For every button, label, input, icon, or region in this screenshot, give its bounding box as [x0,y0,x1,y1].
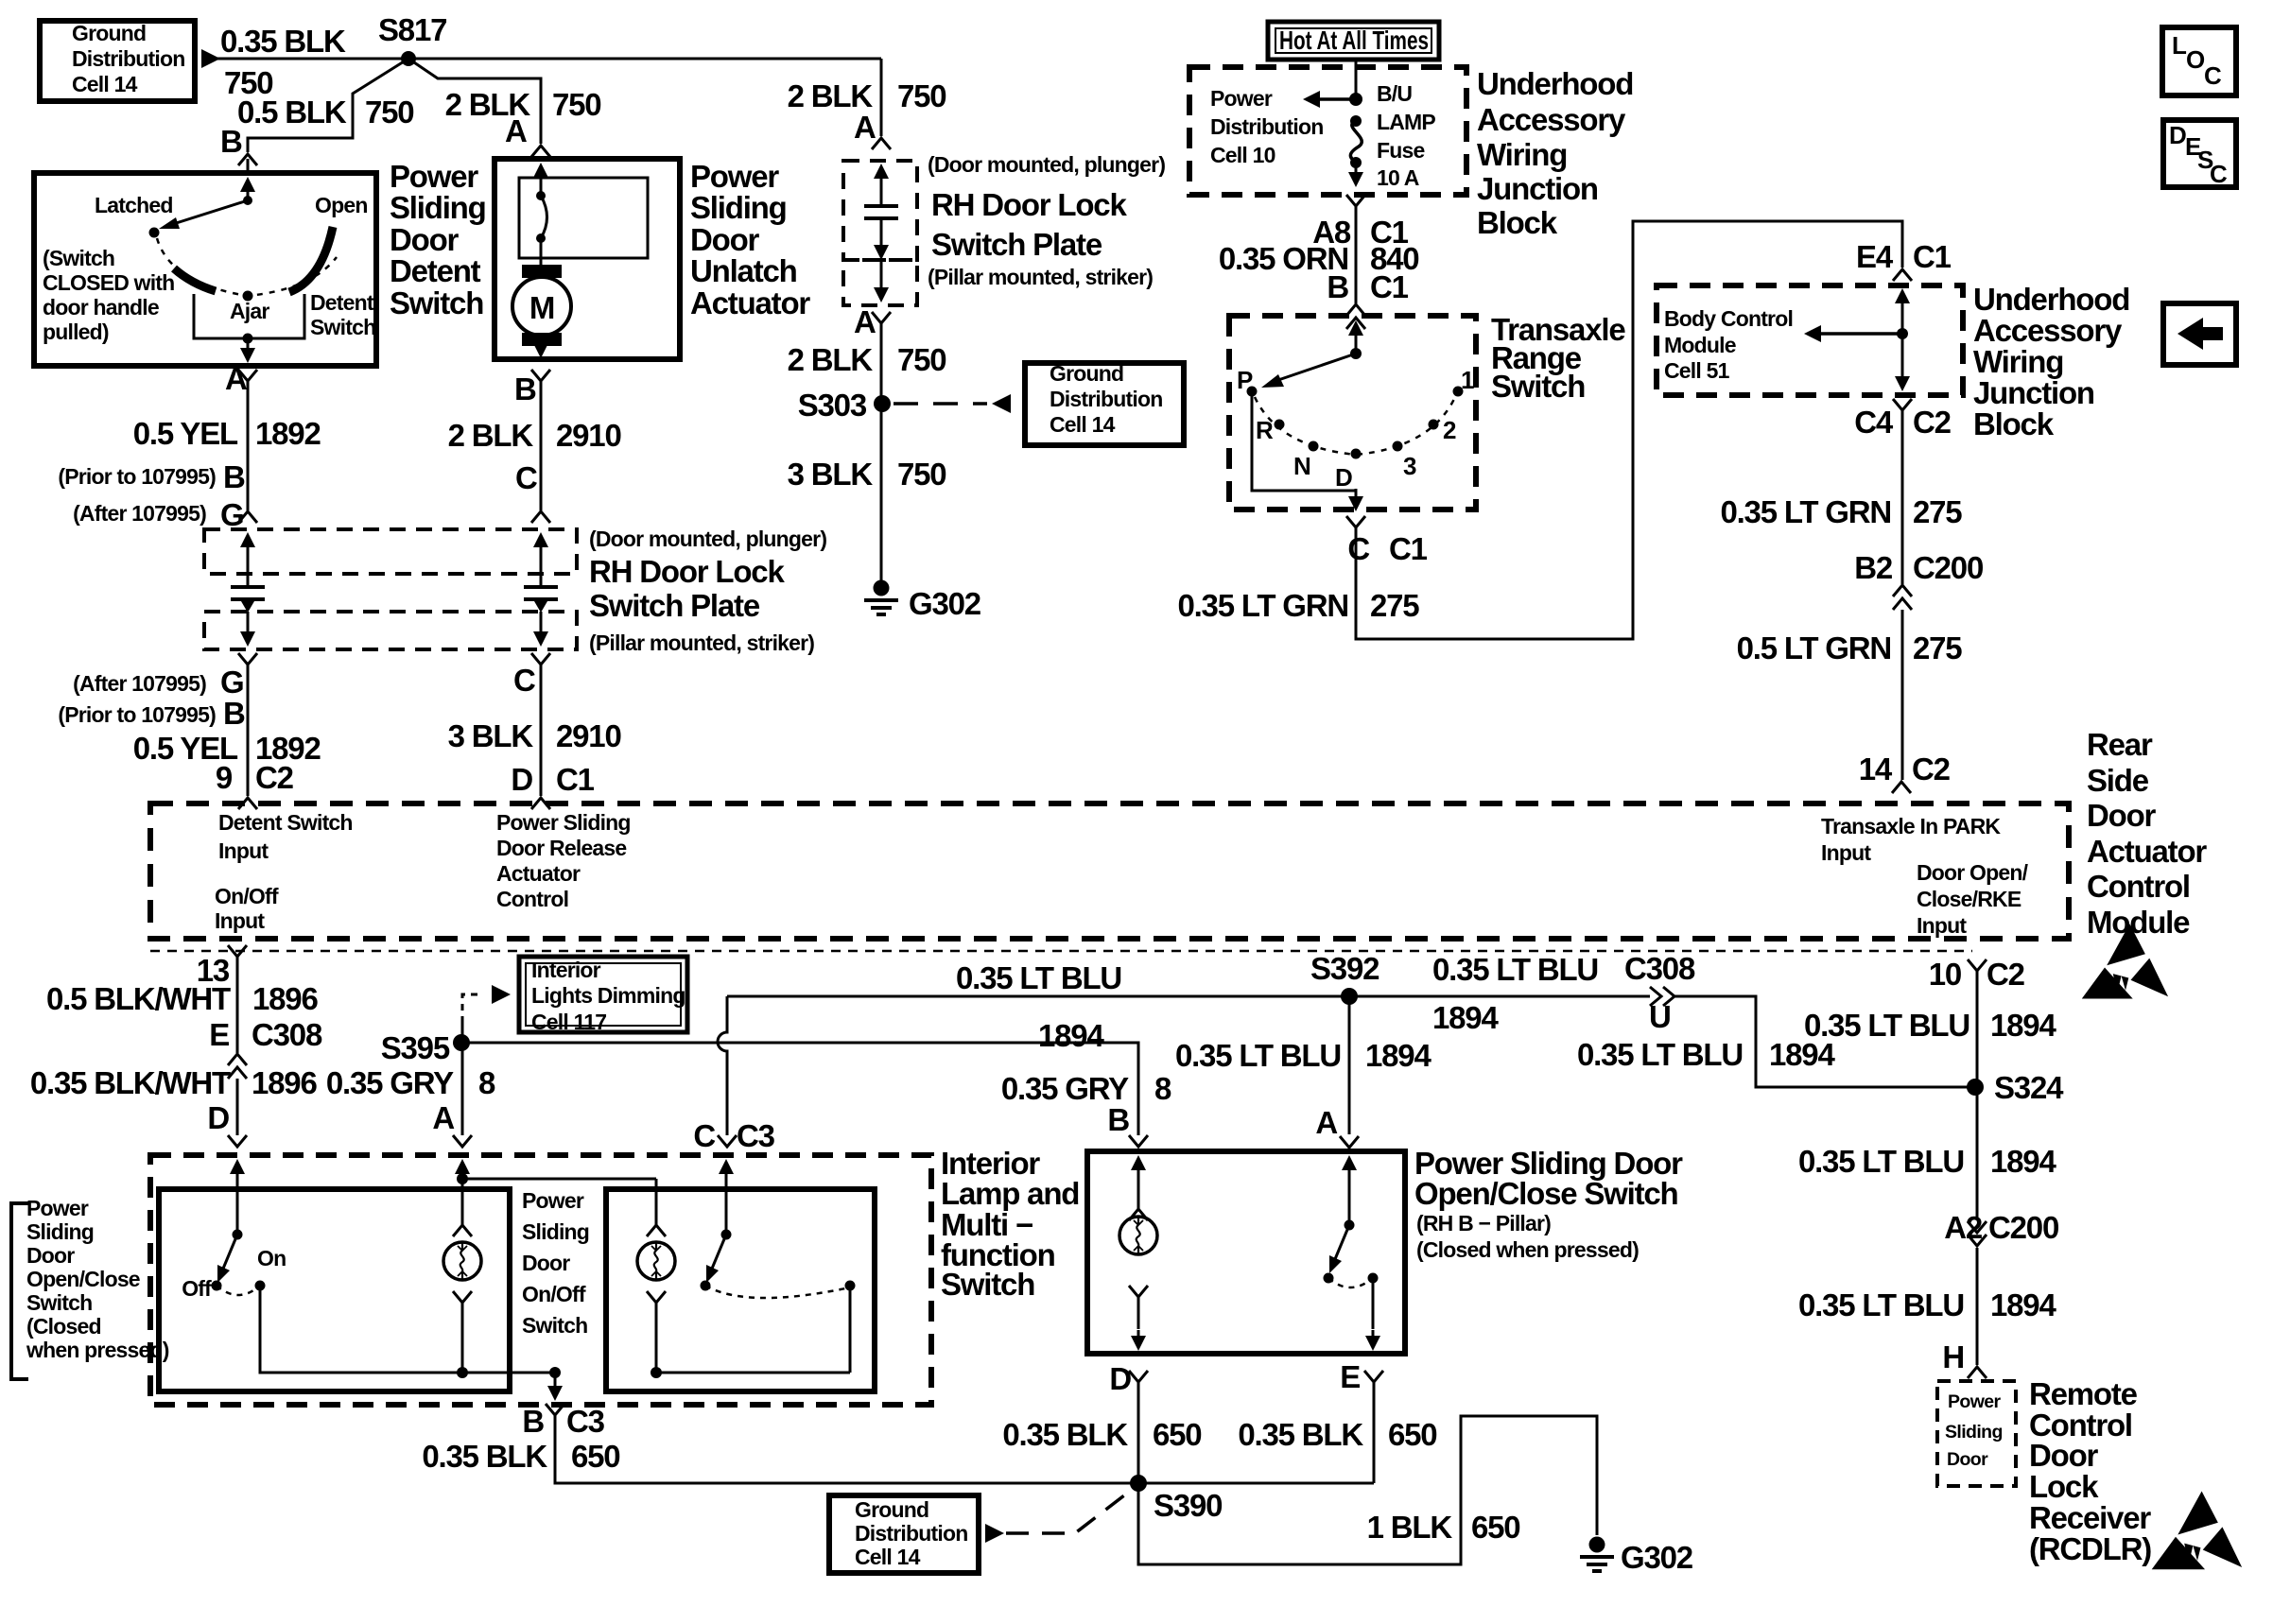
svg-text:Cell 10: Cell 10 [1210,143,1275,167]
svg-text:C4: C4 [1854,405,1894,440]
svg-text:Detent: Detent [390,253,481,288]
dashed arc RH switch [1328,1278,1373,1287]
svg-text:0.35 BLK: 0.35 BLK [220,24,346,59]
wire pin 10 down to S324 [1976,971,1979,1087]
svg-text:Close/RKE: Close/RKE [1917,887,2021,911]
svg-text:0.35 LT BLU: 0.35 LT BLU [1432,952,1598,987]
svg-text:(Prior to 107995): (Prior to 107995) [58,702,216,727]
svg-text:D: D [207,1100,229,1135]
svg-text:Detent: Detent [310,290,374,315]
svg-text:10: 10 [1929,957,1961,992]
svg-text:B: B [1107,1102,1129,1137]
svg-text:8: 8 [1154,1071,1171,1106]
svg-text:Switch: Switch [522,1313,587,1338]
power sliding door dashed box (RCDLR) [1937,1381,2016,1486]
transaxle switch arm [1278,354,1356,380]
wire motor to box bottom [533,343,548,358]
svg-text:D: D [511,762,532,797]
svg-text:2910: 2910 [556,418,621,453]
svg-text:E: E [1340,1359,1360,1394]
dashed arc of transaxle positions [1255,397,1455,455]
rear side door actuator control module dashed box [150,803,2069,939]
wire 0.5 LT GRN 275 [1901,610,1904,780]
svg-text:Door: Door [690,222,760,257]
wire 0.5 YEL 1892 (detent to connector) [247,381,250,510]
svg-text:Lights Dimming: Lights Dimming [531,983,685,1008]
svg-text:A: A [225,361,247,396]
junction S395 [453,1034,470,1051]
terminal G into switch plate [238,511,257,523]
wire 0.35 LT BLU 1894 main horizontal [727,995,1650,998]
ESD sensitive symbol (module) [2082,924,2168,998]
junction S392 [1341,988,1358,1005]
interior lamp and multifunction switch dashed box [150,1155,931,1405]
svg-text:0.5 BLK/WHT: 0.5 BLK/WHT [46,981,231,1016]
feed junction dot [1349,93,1362,106]
svg-text:275: 275 [1913,494,1962,529]
svg-text:Lock: Lock [2029,1469,2099,1504]
power sliding door open/close switch box (RH B-pillar) [1087,1151,1405,1354]
svg-text:0.35 GRY: 0.35 GRY [326,1065,454,1100]
svg-text:Block: Block [1973,406,2055,441]
svg-text:Switch: Switch [941,1267,1034,1302]
svg-text:Ground: Ground [72,21,146,45]
svg-text:Sliding: Sliding [1945,1422,2003,1443]
detent switch pivot [243,196,252,205]
wire from On contact to bus [260,1286,555,1373]
svg-text:Sliding: Sliding [390,190,486,225]
svg-text:Input: Input [1917,913,1967,938]
wire 0.35 LT GRN 275 (to C200) [1901,410,1904,584]
terminal pin 13 below module [228,945,247,957]
svg-text:Rear: Rear [2087,727,2153,762]
wire 0.5 BLK/WHT 1896 [236,957,239,1053]
svg-text:Control: Control [2087,869,2190,904]
svg-text:Input: Input [1821,840,1871,865]
hot at all times tag box [1268,22,1439,60]
off contact dot [212,1281,222,1291]
lamp feed pin B arrow [1131,1155,1146,1170]
svg-text:Distribution: Distribution [855,1521,967,1546]
latched contact dot [149,228,160,238]
svg-text:1 BLK: 1 BLK [1367,1510,1453,1545]
svg-text:Switch: Switch [1491,369,1585,404]
dashed arc multifunction switch [705,1286,850,1298]
svg-text:B: B [1327,269,1348,304]
RH door lock switch plate dashed box upper right [843,161,917,260]
svg-text:pulled): pulled) [43,320,109,344]
svg-text:(Closed: (Closed [26,1314,101,1339]
svg-text:Door Open/: Door Open/ [1917,860,2029,885]
svg-text:D: D [1109,1361,1131,1396]
svg-text:Unlatch: Unlatch [690,253,797,288]
svg-text:Power: Power [522,1188,584,1213]
svg-text:Open/Close Switch: Open/Close Switch [1414,1176,1678,1211]
svg-text:0.35 BLK: 0.35 BLK [1002,1417,1128,1452]
svg-text:(Prior to 107995): (Prior to 107995) [58,464,216,489]
svg-text:B2: B2 [1854,550,1893,585]
svg-text:Ajar: Ajar [230,299,269,323]
wire into fuse block [1355,60,1358,99]
svg-text:10 A: 10 A [1377,165,1419,190]
actuator switch contact dots and curve [536,191,546,200]
svg-text:0.35 BLK: 0.35 BLK [422,1439,547,1474]
svg-text:Power: Power [26,1196,89,1220]
svg-text:Door Release: Door Release [496,836,626,860]
svg-text:Interior: Interior [531,958,601,982]
svg-text:3 BLK: 3 BLK [448,718,534,753]
svg-text:Switch: Switch [26,1290,92,1315]
svg-text:0.35 LT BLU: 0.35 LT BLU [956,960,1121,995]
arrow from ground distribution to S390 [985,1524,1004,1543]
svg-text:Sliding: Sliding [522,1219,589,1244]
dashed tap to interior lights dimming [461,1021,464,1043]
svg-text:Underhood: Underhood [1973,282,2129,317]
svg-text:Open/Close: Open/Close [26,1267,140,1291]
svg-text:Distribution: Distribution [1050,387,1162,411]
wire 0.35 BLK 650 to S390 bus [555,1415,1374,1483]
svg-text:Open: Open [315,193,368,217]
svg-text:C2: C2 [1913,405,1952,440]
wire from S817 to unlatch actuator terminal A [408,59,541,144]
svg-text:C1: C1 [1913,239,1952,274]
svg-text:A2: A2 [1944,1210,1983,1245]
svg-text:Wiring: Wiring [1477,137,1567,172]
svg-text:3: 3 [1403,452,1416,480]
svg-text:A: A [432,1100,454,1135]
svg-text:0.35 LT GRN: 0.35 LT GRN [1177,588,1348,623]
dashed reference line to S390 [1006,1489,1133,1533]
svg-text:when pressed): when pressed) [26,1338,169,1362]
detent switch terminal stub top [247,159,250,173]
svg-text:275: 275 [1370,588,1419,623]
svg-text:C308: C308 [252,1017,322,1052]
svg-text:D: D [1335,463,1352,492]
svg-text:Distribution: Distribution [1210,114,1323,139]
svg-text:650: 650 [1153,1417,1201,1452]
svg-text:Cell 14: Cell 14 [72,72,138,96]
terminal pin 14 into module [1892,782,1911,793]
B/U LAMP fuse symbol [1350,115,1362,127]
svg-text:2 BLK: 2 BLK [788,78,874,113]
svg-text:C: C [513,663,535,698]
lamp chevron top [1129,1209,1148,1220]
svg-text:(Pillar mounted, striker): (Pillar mounted, striker) [589,631,814,655]
bus in multifunction switch [656,1372,850,1374]
switch plate left wire arrows and plates [240,532,255,547]
interior lamp (second) [637,1242,675,1280]
svg-text:G302: G302 [909,586,981,621]
wire LT BLU to S324 [1674,996,1975,1087]
svg-text:0.35 LT GRN: 0.35 LT GRN [1720,494,1891,529]
svg-text:1894: 1894 [1365,1038,1431,1073]
svg-text:3 BLK: 3 BLK [788,457,874,492]
wire S395 to open/close switch pin B [462,1043,1138,1135]
svg-text:S303: S303 [798,388,867,423]
ground G302 (upper) [874,580,890,596]
svg-text:Fuse: Fuse [1377,138,1424,163]
switch pivot feed pin A [1342,1155,1357,1170]
svg-text:S392: S392 [1310,951,1379,986]
svg-text:C3: C3 [737,1118,775,1153]
svg-text:1894: 1894 [1038,1018,1104,1053]
svg-text:B: B [522,1404,544,1439]
multifunction switch arm [712,1235,726,1269]
svg-text:0.5 LT GRN: 0.5 LT GRN [1737,631,1891,665]
detent switch arm with arrowhead [170,200,248,225]
multifunction switch contact dots [701,1281,711,1291]
svg-text:0.35 LT BLU: 0.35 LT BLU [1798,1287,1964,1322]
svg-text:Actuator: Actuator [2087,834,2207,869]
interior lights dimming cell 117 box [519,957,687,1032]
svg-text:750: 750 [365,95,413,130]
svg-text:S390: S390 [1154,1488,1222,1523]
terminal G below switch plate left [238,653,257,665]
svg-text:650: 650 [1388,1417,1436,1452]
terminal C below switch plate right [531,653,550,665]
tap junction dot [1897,328,1908,339]
svg-text:Side: Side [2087,763,2149,798]
svg-text:Remote: Remote [2029,1376,2138,1411]
interior lamp (RH switch) [1119,1217,1157,1254]
wire 0.35 ORN 840 [1355,206,1358,303]
svg-text:2 BLK: 2 BLK [448,418,534,453]
DESC legend box [2163,120,2236,187]
on contact dot [255,1281,266,1291]
inner frame of unlatch actuator [519,178,648,258]
junction S303 [874,395,891,412]
wire S390 to G302 (1 BLK 650) [1138,1416,1597,1564]
arrow at fuse block exit [1348,172,1363,187]
svg-text:Switch: Switch [390,285,483,320]
svg-text:C: C [2204,61,2222,90]
terminal pin D into module [531,798,550,809]
bus exit junction dot [549,1367,561,1378]
svg-text:LAMP: LAMP [1377,110,1435,134]
svg-text:C: C [515,460,537,495]
RH switch pivot dot [1345,1220,1355,1231]
svg-text:C2: C2 [255,760,294,795]
svg-text:On/Off: On/Off [522,1282,586,1306]
RH switch contact dots [1324,1273,1334,1284]
svg-text:275: 275 [1913,631,1962,665]
svg-text:Cell 51: Cell 51 [1664,358,1730,383]
svg-text:(Door mounted, plunger): (Door mounted, plunger) [589,527,826,551]
on/off switch pivot [233,1230,243,1240]
svg-text:C2: C2 [1987,957,2025,992]
position contact dots P R N D 3 2 1 [1247,387,1258,397]
junction dot second lamp to bus [651,1367,662,1378]
svg-text:C200: C200 [1913,550,1983,585]
svg-text:0.35 BLK: 0.35 BLK [1238,1417,1363,1452]
underhood accessory wiring junction block dashed box (right) [1657,285,1963,395]
svg-text:C1: C1 [1370,269,1409,304]
wire 0.35 BLK/WHT 1896 [236,1079,239,1135]
svg-text:S817: S817 [378,12,446,47]
svg-text:B: B [223,459,245,494]
arrow from ground distribution box [201,49,220,68]
svg-text:Transaxle In PARK: Transaxle In PARK [1821,814,2001,838]
terminal C4 C2 [1893,399,1912,410]
junction S817 [401,51,416,66]
svg-text:Control: Control [496,887,568,911]
arrow to S303 from ground distribution box [992,394,1011,413]
ground distribution cell 14 reference box (bottom) [829,1495,979,1573]
lamp to pin D with arrow [1129,1286,1148,1297]
svg-text:Input: Input [218,838,269,863]
wire from S817 to detent switch terminal B [248,59,408,152]
thick arc segment left (closed zone) [174,268,216,291]
svg-text:1896: 1896 [252,1065,317,1100]
svg-text:Door: Door [1947,1449,1988,1470]
svg-text:Off: Off [182,1276,212,1301]
svg-text:Accessory: Accessory [1973,313,2123,348]
arrow down to junction block exit [1901,334,1904,369]
svg-text:Power: Power [690,159,779,194]
ground G302 (lower) [1589,1537,1605,1553]
svg-text:D: D [2169,121,2186,149]
svg-text:RH Door Lock: RH Door Lock [931,187,1127,222]
actuator terminal arrow inside top [533,163,548,178]
svg-text:750: 750 [552,87,600,122]
RH switch arm [1335,1225,1349,1259]
svg-text:Power: Power [1210,86,1273,111]
svg-text:E: E [209,1017,229,1052]
svg-text:Body Control: Body Control [1664,306,1793,331]
svg-text:O: O [2186,45,2205,74]
transaxle switch feed arrow [1348,320,1363,336]
svg-text:0.5 YEL: 0.5 YEL [133,416,238,451]
wire 0.5 YEL 1892 lower [247,665,250,796]
svg-text:Receiver: Receiver [2029,1500,2151,1535]
ground distribution cell 14 reference box (middle) [1025,363,1184,445]
svg-text:Cell 117: Cell 117 [531,1010,606,1034]
multifunction open/close switch box [606,1189,875,1391]
bracket for open/close switch label (far left) [11,1203,28,1379]
underhood accessory wiring junction block dashed box (fuse) [1189,67,1466,195]
svg-text:750: 750 [897,342,946,377]
wire from P contact to box exit [1252,391,1356,491]
svg-text:Power: Power [1948,1391,2002,1412]
contact to pin E with arrow [1372,1278,1375,1329]
svg-text:1894: 1894 [1990,1144,2056,1179]
svg-text:Lamp and: Lamp and [941,1176,1079,1211]
svg-text:Junction: Junction [1973,375,2094,410]
switch plate right wire arrows and plates [533,532,548,547]
svg-text:M: M [529,290,554,325]
svg-text:Cell 14: Cell 14 [1050,412,1116,437]
multifunction switch pivot dot [721,1230,732,1240]
terminal B C3 below interior lamp switch [546,1404,564,1415]
svg-text:Underhood: Underhood [1477,66,1633,101]
svg-text:Power: Power [390,159,478,194]
svg-text:1894: 1894 [1990,1287,2056,1322]
power sliding door unlatch actuator box [495,159,680,359]
svg-text:G: G [220,497,243,532]
svg-text:0.35 LT BLU: 0.35 LT BLU [1798,1144,1964,1179]
junction S390 [1130,1475,1147,1492]
wire contact to bus [849,1286,852,1373]
svg-text:Sliding: Sliding [26,1219,94,1244]
svg-text:B: B [220,124,242,159]
svg-text:Module: Module [1664,333,1736,357]
svg-text:C: C [1347,531,1369,566]
wire 0.35 BLK 650 pin E to bus [1373,1382,1376,1483]
svg-text:G302: G302 [1621,1540,1693,1575]
lamp feed wire pin A with arrow [455,1159,470,1174]
svg-text:Actuator: Actuator [496,861,581,886]
svg-text:0.35 LT BLU: 0.35 LT BLU [1577,1037,1743,1072]
RH door lock switch plate dashed box lower (pillar mounted striker) [204,612,577,649]
svg-text:1896: 1896 [252,981,318,1016]
transaxle switch pivot dot [1350,348,1362,359]
transaxle range switch dashed box [1229,316,1476,510]
wire 0.35 BLK 650 pin D to S390 [1137,1382,1140,1483]
ground distribution cell 14 reference box (top left) [40,21,195,101]
junction dot above lamp [457,1173,468,1184]
dashed travel arc of detent switch [157,238,337,296]
junction block internal wire with arrows [1895,288,1910,303]
svg-text:P: P [1237,366,1253,394]
svg-text:1: 1 [1461,366,1474,394]
svg-text:(Pillar mounted, striker): (Pillar mounted, striker) [928,265,1153,289]
svg-text:B/U: B/U [1377,81,1412,106]
svg-text:(After 107995): (After 107995) [73,671,206,696]
svg-text:8: 8 [478,1065,495,1100]
svg-text:On: On [257,1246,286,1270]
svg-text:(Door mounted, plunger): (Door mounted, plunger) [928,152,1165,177]
svg-text:A: A [854,304,876,339]
terminal D below switch [1129,1371,1148,1382]
svg-text:C200: C200 [1988,1210,2058,1245]
multifunction switch pivot feed arrow pin C [719,1159,734,1174]
svg-text:0.35 GRY: 0.35 GRY [1001,1071,1129,1106]
svg-text:650: 650 [571,1439,619,1474]
svg-text:Door: Door [522,1251,570,1275]
svg-text:Sliding: Sliding [690,190,787,225]
svg-text:(RCDLR): (RCDLR) [2029,1531,2151,1566]
wire 2 BLK 750 down from S817 corner [880,59,883,136]
svg-text:Switch: Switch [310,315,375,339]
ajar contact dot [243,291,253,302]
svg-text:Wiring: Wiring [1973,344,2063,379]
svg-text:CLOSED with: CLOSED with [43,270,174,295]
terminal A below detent switch [238,370,257,381]
wire S392 down to pin A of open/close switch [1348,996,1351,1134]
on/off switch box [159,1189,510,1391]
svg-text:2 BLK: 2 BLK [788,342,874,377]
motor M bottom brush [522,333,562,346]
link wire to second lamp [462,1178,656,1181]
svg-text:B: B [514,371,536,406]
svg-text:Module: Module [2087,905,2190,940]
svg-text:Power Sliding: Power Sliding [496,810,631,835]
second lamp feed [655,1179,658,1225]
svg-text:Block: Block [1477,205,1558,240]
wire 3 BLK 2910 [540,665,543,796]
svg-text:E4: E4 [1856,239,1894,274]
svg-text:G: G [220,665,243,700]
svg-text:Distribution: Distribution [72,46,184,71]
svg-text:1892: 1892 [255,416,321,451]
power sliding door detent switch box [34,173,376,366]
svg-text:1894: 1894 [1990,1008,2056,1043]
svg-text:2: 2 [1443,416,1456,444]
LOC legend box [2162,27,2236,95]
terminal A below switch plate (right) [872,312,891,323]
svg-text:S324: S324 [1994,1070,2064,1105]
svg-text:9: 9 [216,760,233,795]
